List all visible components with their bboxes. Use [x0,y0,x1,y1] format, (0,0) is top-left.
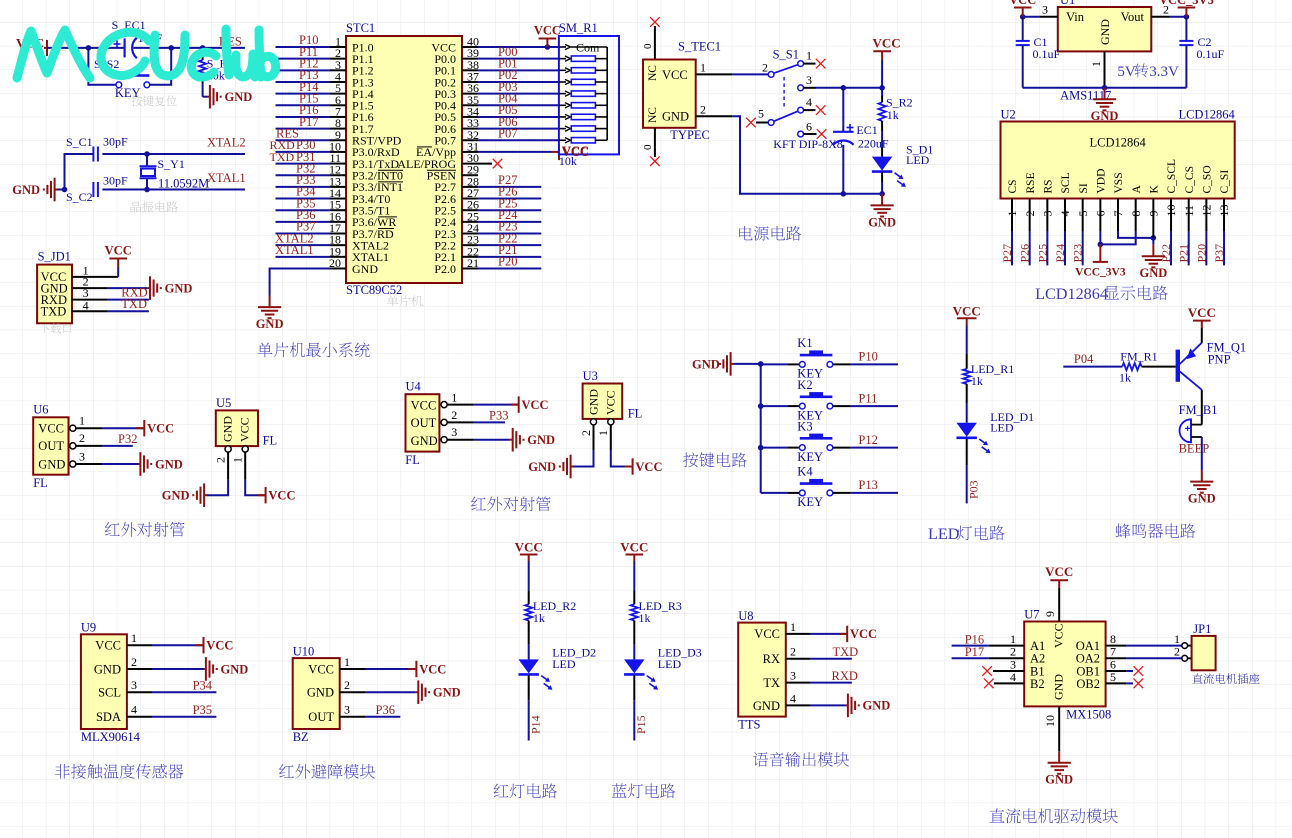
capacitor S_EC1 10uF [112,18,163,58]
SM_R1 resistors [571,56,607,143]
capacitor EC1 220uF [833,88,889,194]
label 晶振电路 [131,201,178,212]
svg-text:VCC: VCC [419,662,446,676]
resistor LED_R3 1k [631,599,682,625]
wire collector to buzzer [1201,390,1203,425]
wire VCC to LED_R2 [528,561,530,591]
svg-text:C_SO: C_SO [1202,165,1214,193]
label 非接触温度传感器 [55,764,183,779]
svg-text:VDD: VDD [1096,169,1108,194]
resistor S_R2 1k [879,88,913,157]
ground (U5) [193,483,207,507]
wire LCD pin 5 net P23 [1071,199,1085,266]
svg-text:5V: 5V [1117,64,1136,80]
svg-text:GND: GND [165,281,193,295]
wire left pin 1 net P10 [276,33,347,47]
wire U6 pin3 to GND [70,449,138,467]
svg-text:30pF: 30pF [103,135,128,149]
svg-text:1k: 1k [1119,370,1131,384]
wire P02 net [462,68,559,82]
label 红外对射管 (right) [471,496,550,511]
svg-text:2: 2 [79,431,85,445]
wire P05 net [462,103,559,117]
svg-text:GND: GND [528,460,556,474]
wire LED_R1 to LED_D1 [966,384,968,404]
svg-text:LCD12864: LCD12864 [1035,285,1108,303]
svg-text:K3: K3 [797,419,812,433]
svg-text:U6: U6 [33,403,48,417]
resistor FM_R1 1k [1119,350,1158,385]
resistor network SM_R1 body [559,21,619,168]
svg-text:GND: GND [1052,674,1066,700]
svg-text:11.0592M: 11.0592M [158,177,209,191]
power VCC (LED_R3) [620,539,648,561]
LCD pin names and numbers [1005,159,1231,217]
wire LCD pin 4 net P24 [1053,199,1067,266]
svg-text:220uF: 220uF [858,136,889,150]
svg-text:0.1uF: 0.1uF [1033,47,1061,61]
svg-text:1: 1 [344,655,350,669]
svg-text:6: 6 [806,120,812,134]
LED LED_D3 [624,646,702,690]
sensor U10 BZ body [293,644,340,744]
svg-text:2: 2 [700,103,706,117]
label 按键复位 [132,95,177,106]
svg-text:2: 2 [790,645,796,659]
wire P01 net [462,57,559,71]
wire P03 net [462,80,559,94]
svg-text:P17: P17 [299,115,318,129]
svg-text:P13: P13 [858,478,877,492]
wire XTAL2 net [102,151,245,157]
wire P25 net [462,196,541,210]
power rail VCC (reset circuit) [16,36,47,57]
svg-text:VCC: VCC [268,489,295,503]
svg-text:VCC: VCC [635,460,662,474]
svg-text:Vin: Vin [1066,10,1085,24]
svg-text:K4: K4 [797,465,813,479]
wire U5 pin1 to VCC [231,446,266,495]
svg-text:P34: P34 [193,679,213,693]
svg-text:GND: GND [863,699,891,713]
svg-text:VCC: VCC [620,539,648,554]
svg-text:3: 3 [790,669,796,683]
svg-text:1: 1 [79,414,85,428]
MCUclub logo [17,29,276,78]
wire left pin 12 net P32 [276,161,347,175]
no-connect X (S_S1 pin6) [817,129,827,139]
svg-text:P03: P03 [966,480,980,499]
svg-text:VCC: VCC [308,662,334,676]
svg-text:LED: LED [906,153,930,167]
wire U10 pin2 to GND [340,678,416,692]
power VCC (EA) [551,144,559,160]
svg-text:5: 5 [1110,670,1116,684]
svg-text:5: 5 [758,107,764,121]
svg-text:10: 10 [1043,715,1057,727]
svg-text:P35: P35 [193,703,212,717]
wire TYPEC top [642,26,655,60]
label 红外对射管 (left) [105,522,184,537]
wire OA1 to JP1 pin1 [1106,632,1192,646]
wire U4 pin3 to GND [441,425,510,443]
svg-text:VCC: VCC [411,398,437,412]
svg-text:4: 4 [806,95,812,109]
svg-text:VCC: VCC [562,144,589,158]
svg-text:1: 1 [451,390,457,404]
wire left pin 17 net P37 [276,220,347,234]
svg-text:C_SI: C_SI [1219,170,1231,194]
svg-text:TXD: TXD [41,305,67,319]
svg-text:0.1uF: 0.1uF [1197,47,1225,61]
connector S_TEC1 TYPEC body [643,40,721,143]
svg-text:S_C2: S_C2 [66,190,93,204]
pushbutton S_S2 KEY (reset) [94,57,150,100]
wire P17 to U7 pin2 [952,645,1025,659]
pushbutton K3 KEY [761,419,898,464]
svg-text:VCC: VCC [105,244,132,258]
svg-text:VCC: VCC [515,539,543,554]
svg-text:GND: GND [38,457,65,471]
svg-text:2: 2 [1174,645,1180,659]
svg-text:C_CS: C_CS [1184,166,1196,194]
svg-text:VCC: VCC [1009,0,1036,7]
ground (AMS1117) [1093,88,1116,111]
svg-text:GND: GND [1098,19,1112,45]
svg-text:FM_B1: FM_B1 [1179,403,1218,417]
wire key right branch [150,48,171,85]
svg-text:4: 4 [83,298,89,312]
no-connect X (S_S1 pin4) [816,105,826,115]
svg-text:TXD: TXD [833,645,859,659]
wire U9 pin1 to VCC [127,631,204,645]
svg-text:STC1: STC1 [346,21,375,35]
wire P26 net [462,185,541,199]
svg-text:SI: SI [1078,183,1090,193]
wire switch pin3 to VCC rail [804,85,885,91]
no-connect X (ALE) [493,159,503,169]
svg-text:RX: RX [763,652,780,666]
svg-text:K: K [1149,185,1161,194]
wire K pin9 to GND [1152,199,1154,245]
wire VCC to S_EC1 [47,45,125,51]
buzzer FM_B1 BEEP [1179,403,1218,455]
wire LCD pin 2 net P26 [1018,199,1032,266]
wire P00 net [462,45,559,59]
svg-text:A: A [1131,185,1143,194]
svg-text:P20: P20 [1194,244,1208,263]
svg-text:1: 1 [231,457,245,463]
connector JP1 motor socket [1182,622,1216,670]
sensor U3 FL body [583,369,643,421]
wire P22 net [462,231,541,245]
svg-text:GND: GND [527,433,555,447]
svg-text:P27: P27 [1000,244,1014,263]
power VCC (U7) [1045,564,1073,588]
wire VDD pin6 [1098,199,1104,248]
wire bottom bus [1023,85,1187,91]
svg-text:B2: B2 [1030,677,1045,691]
svg-text:GND: GND [1188,492,1216,506]
wire LCD pin 11 net P21 [1177,199,1191,266]
power VCC_3V3 (LCD) [1093,244,1108,262]
svg-text:VCC: VCC [206,639,233,653]
wire P23 net [462,220,541,234]
power VCC (U6) [136,420,144,436]
wire left pin 7 net P16 [276,103,347,117]
wire P04 net [462,91,559,105]
svg-text:FL: FL [33,476,48,490]
svg-text:GND: GND [155,457,183,471]
svg-text:VCC: VCC [1052,623,1066,648]
power VCC (MCU pin40) [539,39,557,48]
svg-text:SM_R1: SM_R1 [559,21,598,35]
svg-text:SCL: SCL [98,686,121,700]
no-connect X (U7 pin3) [982,666,992,676]
svg-text:VCC: VCC [1188,305,1216,320]
wire P07 net [462,126,559,140]
wire U10 pin1 to VCC [340,655,417,669]
svg-text:P14: P14 [529,715,543,734]
wire U8 pin4 to GND [786,691,845,705]
wire OB1 no-connect [1106,657,1133,671]
svg-text:LED: LED [928,525,960,543]
pin 4 wire TXD [72,297,149,312]
svg-text:S_TEC1: S_TEC1 [678,40,721,54]
power VCC (S_JD1) [109,259,127,268]
svg-text:S_C1: S_C1 [66,135,93,149]
wire left pin 19 net XTAL1 [275,243,346,257]
svg-text:3: 3 [131,678,137,692]
wire S_EC1 to RES node [134,45,245,51]
power VCC (AMS in) [1009,0,1036,17]
wire U5 pin2 to GND [207,446,231,495]
label LCD12864显示电路 [1035,285,1168,303]
svg-text:XTAL1: XTAL1 [207,171,246,185]
svg-text:VCC: VCC [873,36,901,51]
svg-text:0: 0 [642,43,654,49]
wire Vin [1020,3,1058,20]
MCU U1 STC89C52 body [346,21,462,297]
pin PSEN stub [462,174,478,176]
wire P24 net [462,208,541,222]
svg-text:U9: U9 [81,621,96,635]
wire LCD pin 3 net P25 [1035,199,1049,266]
svg-text:FL: FL [405,453,420,467]
svg-text:3.3V: 3.3V [1149,64,1179,80]
svg-text:VCC: VCC [754,627,780,641]
switch S_S1 KFT DIP-8X8 [756,48,843,152]
svg-text:TX: TX [763,676,780,690]
wire U4 pin1 to VCC [441,390,519,407]
svg-text:VCC: VCC [1045,564,1073,579]
svg-text:2: 2 [131,655,137,669]
svg-text:1k: 1k [533,611,545,625]
power VCC (U3) [625,458,633,474]
svg-text:P33: P33 [489,409,508,423]
svg-text:P10: P10 [858,350,877,364]
svg-text:U7: U7 [1024,608,1039,622]
label 语音输出模块 [753,752,849,767]
pin 1 wire to VCC [72,263,118,277]
wire VCC to LED_R1 [966,326,968,355]
svg-text:CS: CS [1007,179,1019,193]
svg-text:GND: GND [12,183,40,197]
wire U4 pin2 P33 [441,408,508,425]
resistor LED_R2 1k [525,599,576,625]
sensor U5 FL body [216,396,277,448]
no-connect X (S_S1 pin5) [746,118,756,128]
wire U9 pin2 to GND [127,655,203,669]
svg-text:U10: U10 [293,644,315,658]
wire U6 pin2 P32 [70,431,138,449]
svg-text:1: 1 [806,49,812,63]
wire buzzer to GND [1201,437,1203,470]
wire left pin 14 net P34 [276,185,347,199]
svg-text:1: 1 [790,620,796,634]
svg-text:GND: GND [433,686,461,700]
resistor LED_R1 1k [963,362,1014,388]
label 电源电路 [739,226,801,241]
svg-text:OUT: OUT [411,416,437,430]
wire EA/Vpp to VCC [462,151,551,153]
svg-text:4: 4 [131,703,137,717]
ground (U10) [415,680,429,704]
wire GND pin 20 [330,267,346,269]
svg-text:K2: K2 [797,378,812,392]
svg-text:P37: P37 [1212,244,1226,263]
wire P27 net [462,173,541,187]
label 直流电机插座 [1192,673,1259,684]
wire TYPEC bottom [642,128,655,157]
svg-text:U4: U4 [406,380,422,394]
wire U7 pin4 no-connect [994,670,1024,684]
module U8 TTS body [738,609,786,732]
LED LED_D1 [956,410,1034,453]
svg-text:1k: 1k [971,374,983,388]
wire left pin 4 net P13 [276,68,347,82]
wire U3 pin1 to VCC [596,419,632,467]
LED LED_D2 [518,646,596,690]
node P04 [1063,352,1122,366]
resistor S_R1 10k [199,48,233,97]
svg-text:3: 3 [806,73,812,87]
svg-text:PNP: PNP [1208,352,1231,366]
svg-text:4: 4 [1010,670,1016,684]
ground (MCU) [258,296,281,319]
svg-text:NC: NC [647,107,659,123]
wire Vout [1151,3,1189,20]
pin 2 wire to GND [72,275,147,289]
svg-text:P32: P32 [118,432,137,446]
sensor U6 FL body [33,403,68,491]
pin 3 wire RXD [72,285,149,300]
svg-text:1: 1 [700,61,706,75]
svg-text:2: 2 [451,408,457,422]
wire U7 pin9 to VCC [1043,588,1059,622]
svg-text:1k: 1k [887,108,899,122]
svg-text:P20: P20 [498,255,517,269]
wire left pin 11 net P31 [270,150,347,164]
svg-text:3: 3 [451,425,457,439]
svg-text:P04: P04 [1074,352,1094,366]
transistor FM_Q1 PNP [1176,341,1247,390]
svg-text:GND: GND [256,317,284,331]
ground (crystal) [12,178,64,202]
svg-text:P07: P07 [498,126,517,140]
wire VCC to LED_R3 [633,561,635,591]
wire left pin 16 net P36 [276,208,347,222]
svg-text:U1: U1 [1060,0,1075,7]
svg-text:VCC: VCC [237,417,251,442]
svg-text:KEY: KEY [797,495,823,509]
svg-text:2: 2 [579,430,593,436]
driver U7 MX1508 body [1024,608,1111,722]
wire key left branch [88,48,116,85]
wire LED_D3 to P15 [634,675,648,740]
connector S_JD1 下载口 [37,250,72,324]
label 蓝灯电路 [612,783,676,798]
wire LCD pin 13 net P37 [1212,199,1226,266]
wire U9 pin3 P34 [127,678,216,692]
svg-text:4: 4 [790,691,796,705]
svg-text:S_S1: S_S1 [773,48,799,62]
label 单片机 [387,295,423,306]
power VCC (U4) [511,396,519,412]
wire U7 pin10 to GND [1043,706,1059,751]
ground (U6) [138,452,152,476]
power VCC (LED) [953,303,981,325]
wire GND to key bus [733,363,761,365]
svg-text:JP1: JP1 [1193,622,1211,636]
ground (keys) [692,352,733,376]
wire U6 pin1 to VCC [70,414,145,432]
regulator U1 AMS1117 body [1058,0,1152,103]
svg-text:1: 1 [1089,61,1103,67]
svg-text:LCD12864: LCD12864 [1089,136,1146,150]
wire XTAL1 net [102,187,245,193]
svg-text:GND: GND [352,262,378,276]
pushbutton K4 KEY [761,465,898,510]
svg-text:GND: GND [411,434,438,448]
wire left pin 5 net P14 [276,80,347,94]
svg-text:Vout: Vout [1121,10,1145,24]
ground (S_JD1) [147,276,161,300]
svg-text:GND: GND [225,90,253,104]
svg-text:GND: GND [221,662,249,676]
svg-text:U3: U3 [583,369,598,383]
svg-text:P26: P26 [1018,244,1032,263]
label 单片机最小系统 [257,342,369,357]
svg-text:TXD: TXD [270,150,295,164]
wire S_R1 to GND [203,96,207,98]
svg-text:P15: P15 [634,715,648,734]
svg-text:2: 2 [344,678,350,692]
capacitor C2 0.1uF [1179,17,1224,88]
svg-text:VCC: VCC [662,68,688,82]
svg-text:3: 3 [79,449,85,463]
wire left pin 6 net P15 [276,91,347,105]
wire P20 net [462,255,541,269]
ground (U7) [1048,751,1071,774]
svg-text:GND: GND [692,358,720,372]
svg-text:3: 3 [1042,3,1048,17]
wire U7 pin3 no-connect [993,657,1024,671]
wire ALE/PROG no-connect [462,163,492,165]
wire LCD pin 12 net P20 [1194,199,1208,266]
svg-text:P24: P24 [1053,244,1067,263]
wire OA2 to JP1 pin2 [1106,645,1192,659]
